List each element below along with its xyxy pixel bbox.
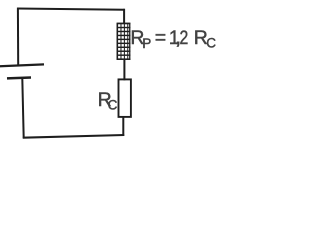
- battery short plate (negative): [7, 76, 31, 79]
- label RP value: R_P = 1,2 R_C: [130, 27, 216, 51]
- svg-text:P: P: [142, 36, 151, 51]
- svg-text:C: C: [206, 35, 216, 50]
- wire right upper vertical: [123, 9, 125, 24]
- resistor RP body (hatched): [117, 23, 131, 60]
- wire top horizontal: [17, 9, 125, 10]
- wire bottom horizontal: [23, 135, 124, 138]
- label RC: [98, 89, 118, 113]
- resistor RC body: [119, 79, 131, 117]
- wire between RP and RC: [123, 60, 125, 81]
- battery long plate (positive): [0, 64, 44, 66]
- wire left upper vertical: [17, 8, 19, 66]
- wire right lower vertical: [122, 116, 124, 136]
- svg-text:2: 2: [180, 27, 189, 49]
- svg-text:C: C: [108, 98, 118, 113]
- wire left lower vertical: [22, 78, 23, 138]
- svg-text:=: =: [155, 27, 166, 49]
